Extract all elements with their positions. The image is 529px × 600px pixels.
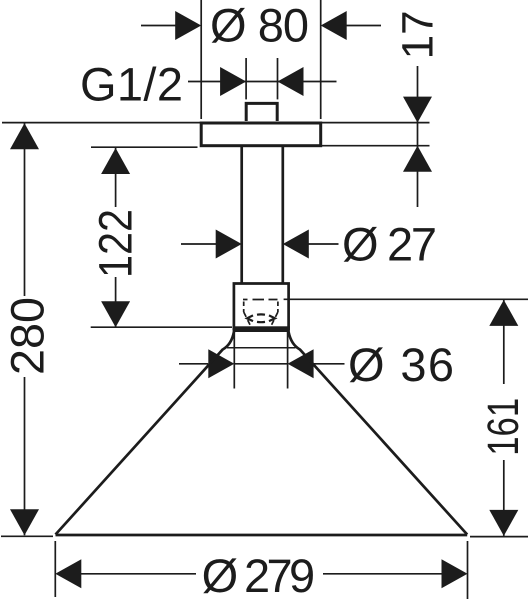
arrow Ø27 left [216,230,242,259]
arrow 280 top [10,123,39,149]
dimension line Ø279 right [323,573,443,575]
ball joint lens bottom dash [257,321,265,324]
cone edge left [56,332,234,535]
arrow 122 top [101,148,130,174]
cone edge right [289,332,468,535]
extension line Ø279 right [467,541,469,599]
cone bottom line [56,534,468,537]
extension line 161 bottom [470,536,528,538]
dimension line 122 [115,148,117,327]
ball-joint housing bottom bar [233,326,290,332]
arrow 122 bottom [101,301,130,327]
extension line Ø279 left [54,541,56,597]
spray face rim line [227,347,296,349]
arrow Ø80 left [175,11,201,40]
ceiling flange [201,123,321,146]
svg-text:G1/2: G1/2 [80,58,183,111]
dimension line Ø36 [179,363,345,365]
arrow Ø27 right [283,230,309,259]
ball joint dashed chamfer right [272,312,278,325]
extension line Ø36 right (neck right vertical) [287,332,289,389]
svg-text:161: 161 [479,398,528,456]
arrow G1/2 left [220,67,246,96]
connector nipple G1/2 [246,103,277,121]
svg-text:122: 122 [88,209,141,278]
ball joint dashed vertical right [277,302,279,313]
supply pipe wall left [240,147,243,284]
arrow Ø80 right [321,11,347,40]
ball joint dashed chamfer left [244,312,250,325]
dimension line Ø80 right tail [343,25,381,27]
ball joint lens left tip [247,315,253,321]
ball joint centerline (dash-dot) [243,299,278,301]
dimension line 161 [503,300,505,536]
extension line Ø36 left (neck left vertical) [233,332,235,389]
extension line Ø80 right [320,0,322,119]
top extension line (280 dim top / 17 dim top) [2,122,430,124]
arrow G1/2 right [278,67,304,96]
dimension line Ø279 left [80,573,196,575]
dimension line Ø27 right tail [306,243,339,245]
ball-joint housing box [234,284,289,331]
extension line G1/2 right [277,58,279,99]
svg-text:Ø 36: Ø 36 [348,338,454,391]
dimension line 17 [417,66,419,207]
extension line 161 top [284,298,528,300]
svg-text:Ø 27: Ø 27 [342,218,437,271]
supply pipe wall right [281,147,284,284]
arrow 161 top [489,300,518,326]
arrow 17 bottom [403,146,432,172]
svg-text:17: 17 [394,10,443,59]
arrow Ø36 right [288,349,314,378]
arrow Ø279 right [442,559,468,588]
arrow 280 bottom [10,509,39,535]
extension line 280 bottom [1,535,53,537]
dimension line G1/2 [188,81,337,83]
svg-text:Ø 80: Ø 80 [210,0,309,52]
extension line Ø80 left [200,0,202,119]
dimension line 280 [24,123,26,535]
ball joint lens right tip [269,315,275,321]
ball joint dashed vertical left [243,302,245,313]
ball joint lens top dash [257,313,265,315]
flange bottom extension line (17 dim bottom) [322,145,430,147]
arrow Ø36 left [208,349,234,378]
arrow 17 top [403,97,432,123]
extension line 122 bottom [91,326,232,328]
svg-text:280: 280 [1,297,54,375]
arrow Ø279 left [55,559,81,588]
extension line G1/2 left [245,58,247,99]
svg-text:Ø 279: Ø 279 [202,549,316,600]
dimension line Ø80 left tail [141,25,178,27]
arrow 161 bottom [489,510,518,536]
extension line 122 top [91,146,198,148]
dimension line Ø27 left tail [181,243,218,245]
